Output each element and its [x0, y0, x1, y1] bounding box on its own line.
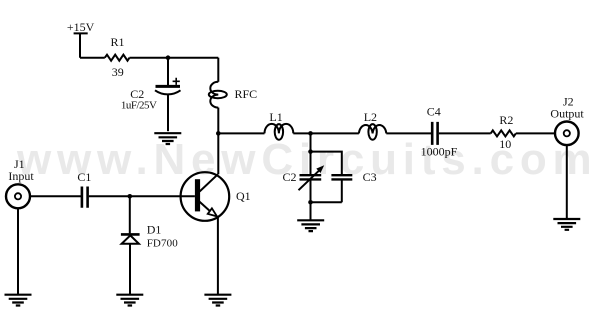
svg-text:L2: L2	[364, 110, 377, 124]
inductor L2	[359, 124, 386, 140]
diode D1	[121, 234, 140, 294]
wire C4 to R2	[439, 132, 491, 134]
wire junction to C2	[167, 58, 169, 85]
variable capacitor C2 (tank)	[299, 165, 325, 190]
capacitor C3	[331, 175, 352, 202]
node junction C1/D1/base	[128, 194, 133, 199]
capacitor C1	[82, 187, 88, 208]
svg-text:C4: C4	[427, 105, 441, 119]
wire tank vertical bottom	[310, 180, 312, 220]
wire branch C3 bottom	[311, 201, 342, 203]
wire tank vertical top	[310, 133, 312, 174]
svg-text:1000pF: 1000pF	[421, 144, 458, 158]
svg-text:1uF/25V: 1uF/25V	[121, 99, 157, 111]
resistor R2	[491, 130, 516, 136]
svg-text:RFC: RFC	[235, 87, 258, 101]
svg-text:+15V: +15V	[67, 20, 95, 34]
power +15V T-bar	[74, 33, 88, 57]
capacitor C2 electrolytic	[155, 78, 181, 132]
connector J1	[6, 184, 30, 208]
connector J2	[555, 122, 579, 146]
transistor Q1	[181, 133, 230, 294]
svg-text:R2: R2	[499, 113, 513, 127]
svg-text:C1: C1	[77, 170, 91, 184]
ground (C2)	[154, 133, 181, 144]
inductor RFC	[209, 58, 227, 134]
svg-text:Output: Output	[550, 107, 584, 121]
capacitor C4	[432, 122, 437, 145]
wire L2 to C4	[386, 132, 431, 134]
svg-text:R1: R1	[110, 35, 124, 49]
ground (D1)	[116, 295, 143, 306]
wire rail to L1	[218, 132, 264, 134]
svg-text:FD700: FD700	[147, 238, 179, 250]
svg-text:L1: L1	[269, 110, 282, 124]
wire R2 to J2	[516, 132, 555, 134]
ground (J2)	[553, 219, 580, 230]
svg-text:Input: Input	[8, 169, 34, 183]
ground (tank)	[297, 220, 324, 231]
svg-text:10: 10	[499, 137, 511, 151]
svg-text:C2: C2	[282, 170, 296, 184]
wire C1 to Q1 base	[89, 195, 195, 197]
resistor R1	[105, 55, 130, 61]
wire junction to D1	[129, 196, 131, 233]
inductor L1	[265, 124, 294, 140]
svg-text:Q1: Q1	[236, 189, 251, 203]
wire J1 to C1	[30, 195, 81, 197]
wire J2 to ground	[566, 145, 568, 219]
ground (Q1 emitter)	[204, 295, 231, 306]
node junction tank split	[308, 149, 313, 154]
svg-text:C3: C3	[363, 170, 377, 184]
svg-text:39: 39	[112, 65, 124, 79]
node junction tank	[308, 131, 313, 136]
node junction R1/C2/RFC	[166, 55, 171, 60]
node junction RFC/L1/collector	[216, 131, 221, 136]
wire J1 to ground	[17, 208, 19, 294]
wire R1 to RFC top	[130, 57, 219, 59]
svg-text:D1: D1	[147, 223, 162, 237]
ground (J1)	[5, 295, 32, 306]
wire +15V to R1	[80, 57, 105, 59]
wire branch to C3 top	[311, 152, 342, 174]
wire L1 to L2	[293, 132, 359, 134]
node junction tank bottom	[308, 200, 313, 205]
